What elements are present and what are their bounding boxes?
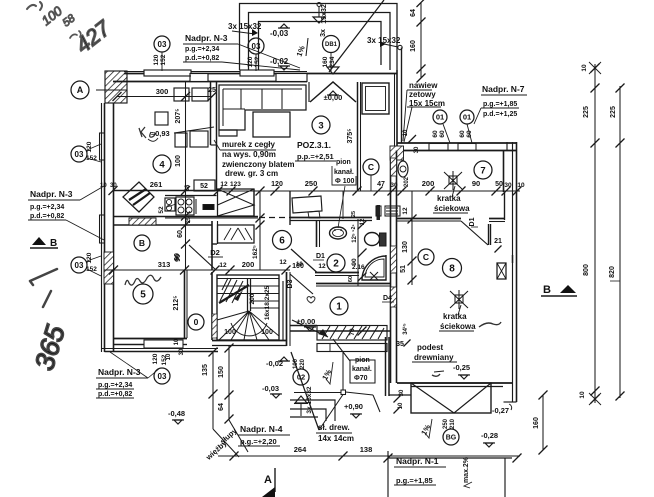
svg-text:murek z cegły: murek z cegły — [222, 140, 275, 149]
svg-text:212⁵: 212⁵ — [173, 296, 180, 311]
wall B/5 right vertical — [184, 270, 186, 338]
top wall north — [124, 73, 307, 75]
svg-text:Φ 100: Φ 100 — [335, 178, 354, 185]
svg-text:90: 90 — [174, 253, 181, 261]
svg-text:-0,03: -0,03 — [270, 29, 289, 38]
svg-text:60: 60 — [459, 130, 466, 138]
vert dim x543 160 — [542, 395, 544, 450]
room circle 1 — [330, 297, 348, 315]
svg-text:3x 15x32: 3x 15x32 — [228, 22, 262, 31]
svg-text:kratka: kratka — [443, 312, 467, 321]
porch steps SW corner — [290, 400, 335, 421]
svg-text:pion: pion — [355, 357, 370, 364]
room circle 0 — [188, 314, 204, 330]
circle 03 bottom — [154, 368, 170, 384]
coffee table room3 — [253, 112, 290, 137]
porch node and lines — [341, 390, 346, 395]
room4 chairs right — [175, 133, 187, 147]
svg-text:160: 160 — [410, 40, 417, 52]
svg-text:0: 0 — [194, 317, 199, 327]
circle 03 left1 — [71, 146, 87, 162]
svg-text:nawiew: nawiew — [409, 81, 438, 90]
C section line top — [370, 175, 372, 191]
svg-text:8: 8 — [449, 264, 455, 275]
circle 03 left2 — [71, 257, 87, 273]
toilet — [365, 233, 380, 246]
svg-text:800: 800 — [583, 264, 590, 276]
left A marker line — [96, 89, 127, 91]
svg-text:B: B — [139, 238, 145, 248]
svg-text:p.g.=+1,85: p.g.=+1,85 — [396, 476, 433, 485]
wiatrolap box — [362, 83, 389, 114]
entrance drain funnel — [327, 67, 339, 74]
svg-text:A: A — [77, 85, 84, 95]
svg-text:BG: BG — [446, 435, 457, 442]
vert dim x362 bath ticks — [358, 221, 367, 230]
svg-text:10: 10 — [579, 391, 586, 399]
drain X room7 — [444, 171, 462, 190]
pipe chase bar — [377, 205, 381, 220]
svg-text:120: 120 — [271, 181, 283, 188]
svg-text:300: 300 — [156, 87, 169, 96]
desk room6 — [292, 196, 322, 213]
svg-text:C: C — [368, 162, 374, 172]
vert dim x412 C corridor — [411, 191, 413, 285]
room1 direction arrow — [292, 320, 328, 337]
svg-text:15x32: 15x32 — [321, 4, 328, 24]
svg-text:207⁵: 207⁵ — [175, 109, 182, 124]
kitchen/room6 north wall y=195 — [165, 195, 217, 197]
svg-text:03: 03 — [158, 40, 167, 49]
svg-text:10: 10 — [174, 338, 180, 345]
svg-text:100: 100 — [293, 358, 299, 369]
circle 01 a — [433, 110, 447, 124]
door D1 swing — [461, 221, 488, 245]
wall x390 below bath — [385, 337, 387, 396]
svg-text:p.g.=+2,34: p.g.=+2,34 — [185, 46, 219, 53]
circle 02 — [293, 369, 309, 385]
svg-text:100: 100 — [261, 329, 273, 336]
svg-text:D1: D1 — [316, 253, 325, 260]
vert dim x260 room6 — [259, 191, 261, 270]
svg-text:D2: D2 — [210, 248, 220, 257]
svg-text:03: 03 — [75, 150, 84, 159]
svg-text:2: 2 — [333, 259, 339, 270]
svg-text:3x: 3x — [320, 29, 327, 37]
svg-text:sł. drew.: sł. drew. — [318, 423, 350, 432]
B marker left — [32, 237, 46, 245]
svg-text:kanał.: kanał. — [352, 366, 372, 373]
node circle stack — [398, 45, 402, 49]
svg-text:ściekowa: ściekowa — [440, 322, 476, 331]
funnel porch — [295, 396, 307, 403]
svg-text:A: A — [264, 474, 272, 486]
svg-text:p.p.=+2,51: p.p.=+2,51 — [297, 152, 334, 161]
svg-text:max.2%: max.2% — [463, 456, 470, 483]
room circle 7 — [474, 161, 492, 179]
vert dim x343 bath — [342, 191, 344, 219]
svg-text:kratka: kratka — [437, 194, 461, 203]
svg-text:p.d.=+1,25: p.d.=+1,25 — [483, 111, 517, 118]
murek room3/4 divider — [210, 82, 212, 145]
NE module south wall with windows N-7 — [397, 142, 517, 144]
scribble 1 — [30, 269, 57, 285]
svg-text:52: 52 — [200, 183, 208, 190]
svg-text:Nadpr. N-1: Nadpr. N-1 — [396, 456, 439, 466]
drain funnel — [317, 3, 321, 7]
svg-text:-0,02: -0,02 — [270, 57, 289, 66]
svg-text:261: 261 — [150, 180, 163, 189]
dim line room4 300 y96 — [117, 96, 212, 98]
dim 313 line y270 — [104, 269, 218, 271]
pipe oval at x403 — [398, 161, 408, 177]
svg-text:120: 120 — [86, 252, 93, 263]
svg-text:375⁵: 375⁵ — [347, 129, 354, 144]
svg-text:drewniany: drewniany — [414, 353, 454, 362]
left outer wall — [101, 103, 103, 352]
svg-text:60: 60 — [177, 230, 184, 238]
wall below room4 (y191) — [114, 190, 217, 192]
circle A marker — [71, 81, 89, 99]
outer walls — [100, 0, 518, 402]
svg-text:12: 12 — [279, 259, 287, 266]
top wall right of entrance — [307, 73, 397, 75]
svg-text:12: 12 — [318, 263, 326, 270]
room5 south wall — [114, 338, 188, 340]
corner shower — [362, 255, 386, 280]
stair treads — [217, 278, 279, 280]
callout lines N-3 top — [238, 44, 300, 68]
svg-text:-0,25: -0,25 — [453, 363, 470, 372]
svg-text:34¹⁵: 34¹⁵ — [402, 323, 409, 335]
svg-text:-0,28: -0,28 — [481, 431, 498, 440]
svg-text:120: 120 — [153, 54, 160, 65]
dim line y191 across — [218, 190, 520, 192]
svg-text:100: 100 — [175, 155, 182, 167]
svg-text:313: 313 — [158, 260, 171, 269]
svg-text:p.d.=+0,82: p.d.=+0,82 — [185, 55, 219, 62]
room circle 3 — [312, 116, 330, 134]
svg-text:225: 225 — [583, 106, 590, 118]
stair newel spine — [247, 278, 249, 311]
svg-text:120: 120 — [247, 56, 254, 67]
room6/bath south-north wall y218 — [290, 217, 372, 219]
dim line 261 y190 — [113, 190, 218, 192]
room circle C top — [363, 159, 379, 175]
svg-text:12⁵: 12⁵ — [352, 233, 358, 243]
svg-text:5: 5 — [140, 290, 146, 301]
svg-text:14x 14cm: 14x 14cm — [318, 434, 354, 443]
pion kanal box — [350, 360, 375, 383]
svg-text:250: 250 — [443, 418, 449, 429]
checkmark squiggles — [479, 322, 501, 327]
hatched exterior steps south of hall — [317, 326, 387, 341]
window N-3 room4 — [144, 70, 191, 76]
svg-text:±0,00: ±0,00 — [324, 93, 343, 102]
svg-text:120: 120 — [86, 141, 93, 152]
svg-text:≈0,93: ≈0,93 — [151, 129, 170, 138]
svg-text:p.g.=+2,20: p.g.=+2,20 — [240, 437, 277, 446]
svg-text:210: 210 — [450, 418, 456, 429]
svg-text:01: 01 — [436, 113, 444, 122]
room circle 2 — [327, 254, 345, 272]
svg-text:100: 100 — [292, 263, 304, 270]
room circle C mid — [418, 249, 434, 265]
D2 door swing — [189, 245, 216, 270]
svg-text:12: 12 — [220, 181, 228, 188]
svg-text:10: 10 — [517, 182, 525, 189]
bath west wall — [316, 221, 318, 248]
bottom outer wall left — [105, 351, 219, 353]
entrance canopy gable — [310, 82, 356, 102]
svg-text:02: 02 — [297, 373, 305, 382]
svg-text:130: 130 — [402, 241, 409, 253]
svg-text:264: 264 — [294, 445, 307, 454]
svg-text:C: C — [423, 252, 429, 262]
svg-text:120: 120 — [152, 353, 159, 364]
circle 01 b — [460, 110, 474, 124]
heart scribble — [307, 297, 315, 304]
svg-text:150: 150 — [218, 366, 225, 378]
vert dim x229 150/64 — [228, 346, 230, 420]
hatched block below nawiew wall — [390, 146, 404, 160]
dashed beam room6 — [259, 217, 290, 219]
svg-text:64: 64 — [410, 9, 417, 17]
Nadpr N-1 box — [387, 451, 389, 497]
svg-text:pion: pion — [336, 159, 351, 166]
stair hatch top-left — [220, 278, 243, 303]
svg-text:Nadpr. N-7: Nadpr. N-7 — [482, 84, 525, 94]
svg-text:p.g.=+2,34: p.g.=+2,34 — [98, 382, 132, 389]
svg-text:podest: podest — [417, 343, 444, 352]
svg-text:zetowy: zetowy — [409, 90, 436, 99]
svg-text:+0,90: +0,90 — [344, 402, 363, 411]
svg-text:25: 25 — [208, 87, 216, 94]
room4 door leaf — [123, 182, 154, 212]
room B top wall band with hatch — [114, 224, 213, 226]
svg-text:220: 220 — [300, 358, 306, 369]
room circle 8 — [443, 259, 462, 278]
terrace envelope — [411, 383, 491, 413]
svg-text:D4: D4 — [383, 295, 392, 302]
svg-text:10: 10 — [581, 64, 588, 72]
svg-text:30: 30 — [110, 183, 117, 189]
svg-text:03: 03 — [252, 42, 261, 51]
desk wall stub room6 — [289, 191, 291, 225]
svg-text:-0,27: -0,27 — [492, 406, 509, 415]
circle 03 a — [154, 36, 170, 52]
svg-text:160: 160 — [322, 56, 329, 67]
svg-text:200: 200 — [242, 260, 255, 269]
pantry/wardrobe west wall — [211, 221, 213, 270]
drain X room8 — [450, 290, 468, 309]
svg-text:12: 12 — [360, 218, 366, 225]
svg-text:35: 35 — [396, 341, 404, 348]
vestibule west wall — [357, 82, 359, 191]
stair outline — [217, 275, 279, 340]
stair left wall hatch — [212, 314, 217, 338]
svg-text:Nadpr. N-3: Nadpr. N-3 — [185, 33, 228, 43]
svg-text:30: 30 — [414, 146, 420, 153]
svg-text:p.g.=+2,34: p.g.=+2,34 — [30, 204, 64, 211]
stairwell walls — [211, 272, 213, 340]
step bar 2 — [317, 344, 387, 352]
svg-text:kanał.: kanał. — [334, 169, 354, 176]
svg-text:202: 202 — [404, 176, 410, 187]
stair winder fan — [217, 311, 279, 340]
svg-text:zwienczony blatem: zwienczony blatem — [222, 160, 294, 169]
svg-text:200: 200 — [422, 179, 435, 188]
stair direction line — [219, 285, 249, 303]
room circle B — [134, 235, 150, 251]
svg-text:50: 50 — [495, 181, 503, 188]
svg-text:138: 138 — [360, 445, 373, 454]
vert dim x186 rooms 4/B — [185, 82, 187, 270]
svg-text:70: 70 — [349, 328, 356, 336]
svg-text:90: 90 — [472, 179, 480, 188]
wall C/room8 with door D1 — [397, 218, 461, 220]
svg-text:25: 25 — [351, 211, 357, 217]
stair right wall line — [282, 281, 284, 341]
porch diagonal — [291, 352, 319, 430]
svg-text:30: 30 — [390, 182, 398, 189]
svg-text:p.g.=+1,85: p.g.=+1,85 — [483, 101, 517, 108]
circle 03 b — [248, 38, 264, 54]
svg-text:Nadpr. N-3: Nadpr. N-3 — [30, 189, 73, 199]
svg-text:152: 152 — [160, 54, 167, 65]
svg-text:2.16: 2.16 — [352, 264, 365, 271]
svg-text:10: 10 — [403, 129, 409, 136]
svg-text:16x18.2x25: 16x18.2x25 — [264, 285, 271, 320]
svg-text:100: 100 — [224, 329, 236, 336]
NE module west wall — [396, 70, 398, 147]
svg-text:200: 200 — [249, 293, 256, 304]
svg-text:POZ.3.1.: POZ.3.1. — [297, 140, 331, 150]
svg-text:-0,03: -0,03 — [262, 384, 279, 393]
svg-text:1: 1 — [336, 302, 342, 313]
svg-text:±0,00: ±0,00 — [297, 317, 316, 326]
svg-text:D3: D3 — [287, 279, 294, 288]
svg-text:Φ70: Φ70 — [354, 375, 368, 382]
svg-text:162⁵: 162⁵ — [252, 245, 259, 259]
meter box — [497, 263, 506, 279]
polka handwriting — [125, 275, 161, 285]
svg-text:820: 820 — [609, 266, 616, 278]
svg-text:D1: D1 — [469, 217, 476, 226]
hatched corner NW — [105, 71, 127, 103]
svg-text:51: 51 — [400, 265, 407, 273]
scribble dash — [43, 291, 51, 307]
svg-text:⁵2⁵: ⁵2⁵ — [351, 224, 357, 232]
east outer wall — [516, 142, 518, 402]
court rect mid — [249, 13, 391, 71]
svg-text:ściekowa: ściekowa — [434, 204, 470, 213]
svg-text:52: 52 — [158, 206, 165, 214]
svg-text:03: 03 — [75, 261, 84, 270]
svg-text:60: 60 — [348, 276, 354, 282]
kitchen row: sink + stove — [165, 198, 175, 211]
svg-text:250: 250 — [305, 179, 318, 188]
svg-text:p.d.=+0,82: p.d.=+0,82 — [98, 391, 132, 398]
room4 table — [155, 112, 168, 125]
room4 furniture squares top — [174, 88, 189, 101]
svg-text:10: 10 — [166, 353, 172, 360]
D3 door stairs — [290, 274, 313, 294]
kitchen counter box 52 — [194, 180, 215, 191]
room8 south wall — [397, 382, 513, 384]
svg-text:64: 64 — [218, 403, 225, 411]
circle DB1 — [323, 36, 340, 53]
svg-text:03: 03 — [158, 372, 167, 381]
svg-text:7: 7 — [480, 165, 485, 176]
svg-text:3x 15x32: 3x 15x32 — [306, 386, 313, 413]
Ku handwriting — [139, 127, 155, 138]
top vert dim x421 64/160 — [420, 2, 422, 78]
svg-text:30: 30 — [179, 348, 185, 355]
svg-text:30: 30 — [504, 182, 512, 189]
svg-text:135: 135 — [202, 364, 209, 376]
right dim line 2 x620 — [619, 86, 621, 398]
scribble top-left cluster — [27, 2, 42, 10]
room8 west wall — [390, 160, 392, 383]
pantry with X — [218, 189, 255, 216]
bath south wall — [315, 272, 359, 274]
svg-text:234: 234 — [329, 56, 336, 67]
left wall window sills — [100, 133, 105, 160]
room circle 5 — [133, 284, 153, 304]
svg-text:225: 225 — [610, 106, 617, 118]
svg-text:47: 47 — [377, 181, 385, 188]
circle BG — [443, 429, 459, 445]
svg-text:60: 60 — [432, 130, 439, 138]
svg-text:6: 6 — [279, 236, 285, 247]
svg-text:B: B — [543, 284, 551, 296]
dim 12/200 y270 room6 — [218, 269, 290, 271]
room5 window south — [144, 340, 183, 348]
svg-text:152: 152 — [254, 56, 261, 67]
svg-text:160: 160 — [533, 417, 540, 429]
svg-text:-0,48: -0,48 — [168, 409, 185, 418]
court ramp diagonal — [329, 0, 384, 72]
stair walk arc — [231, 323, 267, 336]
room circle 4 — [153, 155, 171, 173]
vert dim x213 135 — [212, 352, 214, 429]
svg-text:21: 21 — [494, 238, 502, 245]
svg-text:na wys. 0,90m: na wys. 0,90m — [222, 150, 276, 159]
court rect outer — [240, 4, 398, 71]
court rect inner — [259, 22, 382, 71]
svg-text:4: 4 — [159, 159, 165, 170]
bottom dim y456 — [218, 455, 520, 457]
svg-text:12: 12 — [219, 262, 227, 269]
window N-3 room3 — [240, 70, 274, 76]
right dim line 1 x595 — [594, 64, 596, 403]
washer boxes right of bath — [376, 206, 381, 216]
svg-text:10: 10 — [100, 183, 107, 189]
svg-text:01: 01 — [463, 113, 471, 122]
svg-text:p.d.=+0,82: p.d.=+0,82 — [30, 213, 64, 220]
svg-text:123: 123 — [230, 181, 241, 188]
bath door D1 leaf open — [291, 249, 317, 272]
small dash — [434, 371, 444, 372]
sofa L room3 — [219, 85, 306, 130]
kitchen black bar — [203, 205, 214, 210]
svg-text:DB1: DB1 — [325, 42, 338, 48]
svg-text:12: 12 — [402, 207, 409, 215]
room circle 6 — [273, 231, 292, 250]
svg-text:drew. gr. 3 cm: drew. gr. 3 cm — [225, 169, 278, 178]
sink bath — [330, 227, 347, 239]
